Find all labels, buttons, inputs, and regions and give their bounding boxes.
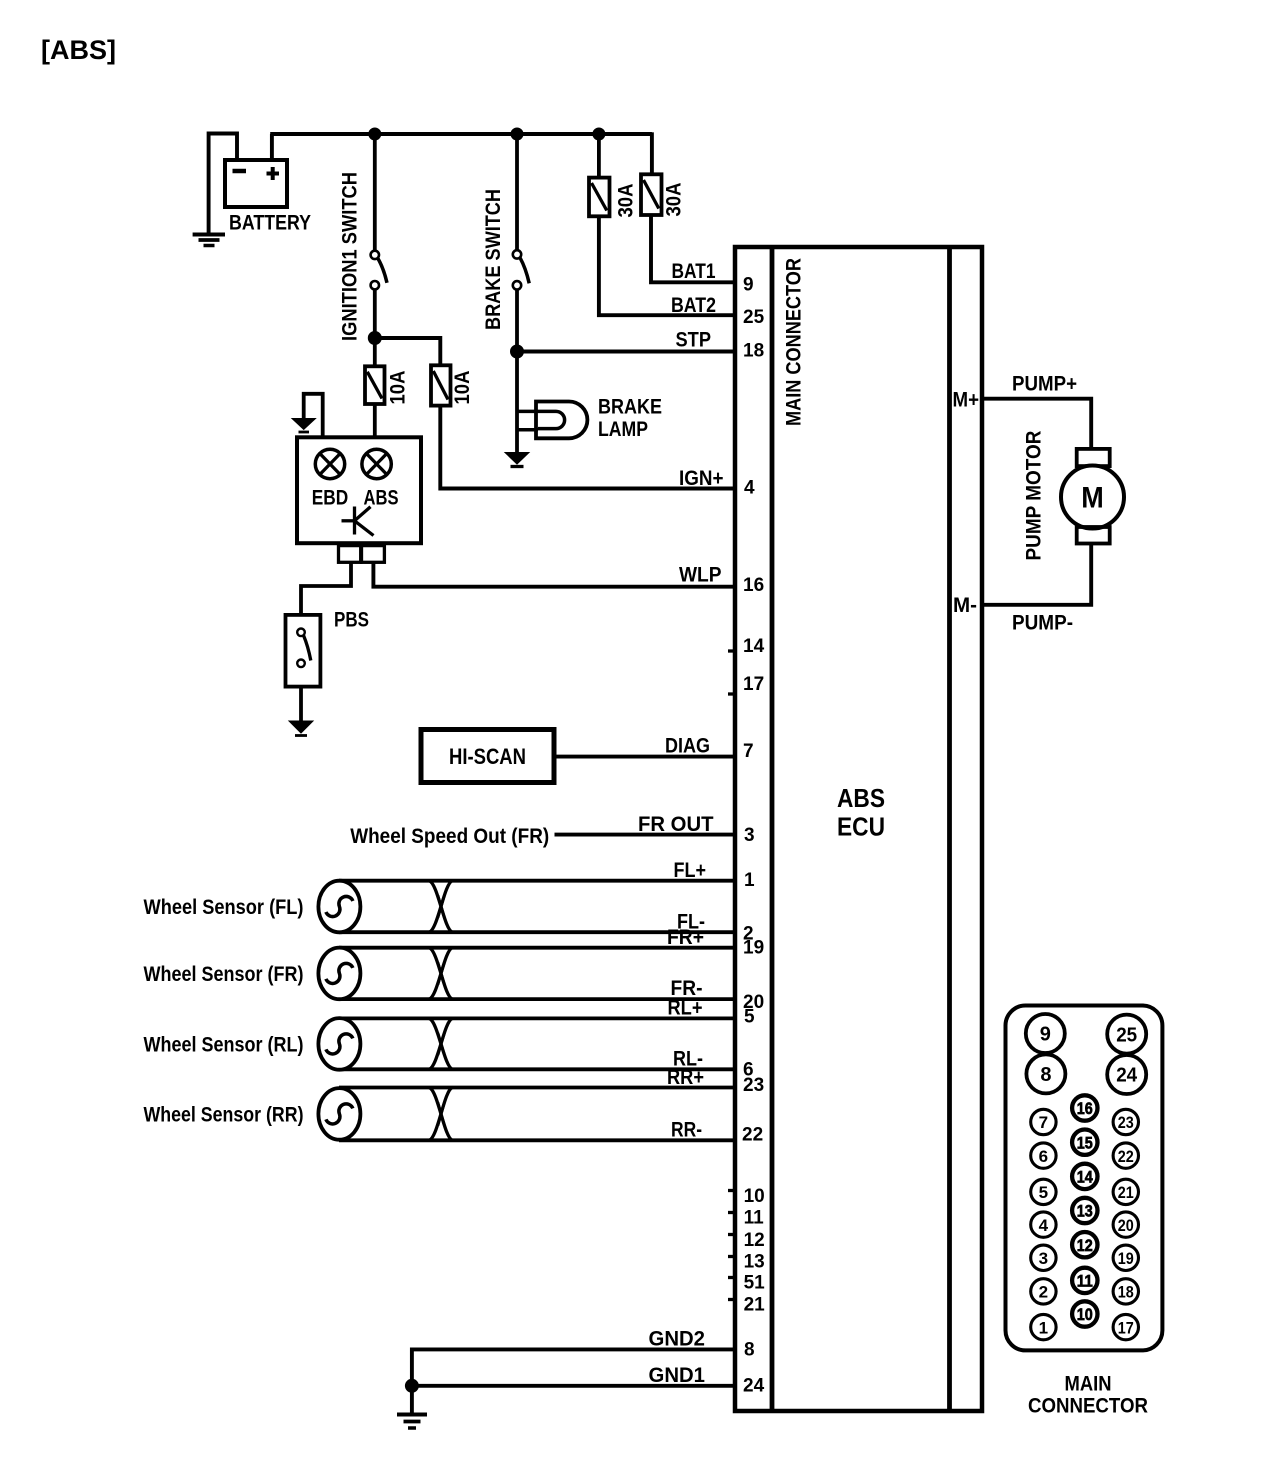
wire rail to fuse 30A-1 — [597, 134, 601, 178]
svg-text:RR-: RR- — [671, 1119, 702, 1142]
svg-text:20: 20 — [1118, 1216, 1134, 1235]
svg-text:14: 14 — [1077, 1168, 1093, 1187]
svg-text:FL+: FL+ — [674, 859, 707, 882]
svg-text:MAIN CONNECTOR: MAIN CONNECTOR — [783, 258, 806, 426]
ground G1 battery — [193, 235, 225, 246]
wheel sensor RL — [318, 1018, 360, 1070]
wire FR OUT to pin 3 — [555, 833, 736, 837]
svg-text:[ABS]: [ABS] — [41, 35, 116, 65]
wire ignition switch to junction — [373, 289, 377, 338]
svg-text:25: 25 — [743, 307, 765, 328]
connector cavity 17 — [1113, 1314, 1138, 1339]
wire STP to pin 18 — [517, 350, 735, 354]
svg-text:21: 21 — [744, 1295, 766, 1316]
svg-text:19: 19 — [743, 937, 764, 958]
svg-text:8: 8 — [744, 1340, 755, 1361]
svg-text:3: 3 — [1039, 1249, 1048, 1268]
svg-text:ABS: ABS — [837, 783, 885, 813]
svg-text:STP: STP — [676, 329, 712, 352]
lamp ABS — [362, 449, 391, 478]
connector cavity 9 — [1026, 1014, 1065, 1053]
svg-text:PUMP-: PUMP- — [1012, 612, 1073, 635]
pump motor M1 — [1061, 449, 1124, 544]
battery B1 — [225, 160, 287, 207]
wire PBS to ground — [299, 687, 303, 722]
wire brake switch branch down to lamp/ground — [515, 352, 519, 454]
wire fuse F3 to cluster box — [373, 404, 377, 437]
svg-text:Wheel Sensor (FL): Wheel Sensor (FL) — [144, 896, 304, 919]
svg-text:13: 13 — [1077, 1202, 1093, 1221]
svg-text:M-: M- — [953, 594, 977, 617]
svg-text:10: 10 — [1077, 1305, 1093, 1324]
svg-text:BRAKE SWITCH: BRAKE SWITCH — [482, 189, 505, 330]
connector cavity 8 — [1026, 1054, 1065, 1093]
svg-text:5: 5 — [744, 1006, 755, 1027]
connector cavity 16 — [1072, 1095, 1097, 1120]
junction node STP — [511, 345, 524, 358]
svg-text:LAMP: LAMP — [598, 418, 648, 441]
svg-text:Wheel Speed Out (FR): Wheel Speed Out (FR) — [350, 825, 549, 848]
svg-text:23: 23 — [1118, 1113, 1134, 1132]
svg-text:16: 16 — [743, 575, 764, 596]
fuse F3 10A — [365, 366, 385, 404]
wire fuse F1 to BAT2 pin 25 — [599, 216, 735, 315]
svg-text:30A: 30A — [615, 184, 638, 218]
svg-text:1: 1 — [1039, 1318, 1048, 1337]
brake lamp stubs — [517, 410, 538, 414]
svg-text:RL+: RL+ — [668, 997, 703, 1020]
connector cavity 11 — [1072, 1268, 1097, 1293]
connector cavity 19 — [1113, 1245, 1138, 1270]
svg-text:10: 10 — [744, 1186, 765, 1207]
wire DIAG to pin 7 — [554, 755, 735, 759]
switch PBS — [286, 615, 321, 687]
cluster pin box left — [339, 546, 361, 563]
svg-text:11: 11 — [744, 1208, 765, 1229]
svg-text:HI-SCAN: HI-SCAN — [449, 744, 526, 769]
svg-text:ECU: ECU — [837, 812, 885, 842]
svg-text:Wheel Sensor (FR): Wheel Sensor (FR) — [144, 963, 304, 986]
wire fuse F2 to BAT1 pin 9 — [651, 215, 735, 282]
fuse F1 30A — [589, 178, 610, 217]
svg-text:DIAG: DIAG — [665, 735, 710, 758]
connector cavity 24 — [1107, 1055, 1146, 1094]
svg-text:19: 19 — [1118, 1249, 1134, 1268]
wire rail to ignition switch — [373, 134, 377, 251]
fuse F2 30A — [641, 174, 662, 215]
svg-text:13: 13 — [744, 1252, 765, 1273]
junction rail/ignition — [369, 128, 381, 140]
svg-text:2: 2 — [1039, 1283, 1048, 1302]
ground G2 ECU — [397, 1415, 427, 1429]
connector cavity 23 — [1113, 1109, 1138, 1134]
svg-text:FR+: FR+ — [667, 926, 704, 949]
wire cluster to PBS — [301, 562, 351, 615]
wire junction to fuse 10A-1 — [373, 338, 377, 366]
junction rail/brake — [511, 128, 523, 140]
EBD symbol mark — [342, 507, 374, 536]
connector cavity 4 — [1031, 1212, 1056, 1237]
wire fuse F4 to IGN+ pin 4 — [440, 406, 735, 489]
connector cavity 22 — [1113, 1143, 1138, 1168]
connector cavity 6 — [1031, 1143, 1056, 1168]
wire M+ to pump motor — [982, 399, 1091, 449]
svg-text:21: 21 — [1118, 1183, 1134, 1202]
svg-text:51: 51 — [744, 1273, 766, 1294]
svg-text:EBD: EBD — [312, 487, 349, 510]
wire cluster WLP to pin 16 — [373, 562, 735, 586]
svg-text:CONNECTOR: CONNECTOR — [1028, 1395, 1148, 1418]
svg-text:9: 9 — [1040, 1024, 1051, 1046]
pin 11 stub — [728, 1211, 735, 1214]
pin 10 stub — [728, 1189, 735, 1192]
svg-text:BAT1: BAT1 — [672, 260, 716, 283]
connector cavity 1 — [1031, 1314, 1056, 1339]
svg-text:BAT2: BAT2 — [671, 294, 716, 317]
wheel sensor RR cable wires RR+/RR- — [339, 1088, 735, 1141]
connector cavity 21 — [1113, 1179, 1138, 1204]
svg-text:GND1: GND1 — [649, 1364, 706, 1387]
svg-text:12: 12 — [744, 1230, 765, 1251]
ignition switch S1 — [371, 251, 387, 290]
connector cavity 2 — [1031, 1279, 1056, 1304]
svg-text:11: 11 — [1077, 1272, 1093, 1291]
fuse F4 10A — [431, 365, 451, 405]
connector cavity 12 — [1072, 1232, 1097, 1257]
svg-text:BRAKE: BRAKE — [598, 396, 662, 419]
wire GND2 to pin 8 — [412, 1349, 735, 1413]
svg-text:18: 18 — [1118, 1283, 1134, 1302]
svg-text:IGNITION1 SWITCH: IGNITION1 SWITCH — [339, 172, 362, 341]
svg-text:BATTERY: BATTERY — [229, 212, 311, 235]
junction node GND — [405, 1379, 418, 1392]
connector cavity 3 — [1031, 1245, 1056, 1270]
warning lamp cluster box — [297, 437, 421, 543]
svg-text:6: 6 — [1039, 1147, 1048, 1166]
ABS ECU box — [735, 247, 982, 1411]
ECU connector divider right — [947, 247, 952, 1411]
svg-text:5: 5 — [1039, 1183, 1048, 1202]
pin 17 stub — [728, 692, 735, 695]
svg-text:22: 22 — [742, 1125, 763, 1146]
svg-text:18: 18 — [743, 340, 764, 361]
svg-text:PUMP+: PUMP+ — [1012, 373, 1077, 396]
svg-text:Wheel Sensor (RL): Wheel Sensor (RL) — [144, 1034, 304, 1057]
svg-text:Wheel Sensor (RR): Wheel Sensor (RR) — [144, 1104, 304, 1127]
svg-text:M: M — [1081, 482, 1104, 515]
svg-text:12: 12 — [1077, 1236, 1093, 1255]
svg-text:PBS: PBS — [334, 609, 369, 632]
svg-text:GND2: GND2 — [649, 1328, 706, 1351]
brake switch S2 — [513, 250, 529, 289]
svg-text:22: 22 — [1118, 1147, 1134, 1166]
wire battery positive riser — [270, 134, 274, 160]
svg-text:MAIN: MAIN — [1065, 1373, 1112, 1396]
wheel sensor FL cable wires FL+/FL- — [339, 881, 735, 933]
svg-text:8: 8 — [1040, 1064, 1051, 1086]
connector cavity 13 — [1072, 1198, 1097, 1223]
wire battery negative to ground — [209, 134, 237, 234]
svg-text:24: 24 — [743, 1375, 765, 1396]
svg-text:15: 15 — [1077, 1133, 1093, 1152]
pin 14 stub — [728, 649, 735, 652]
wire top power rail — [270, 132, 652, 136]
connector cavity 14 — [1072, 1164, 1097, 1189]
svg-text:10A: 10A — [387, 371, 410, 405]
ECU connector divider left — [770, 247, 775, 1411]
svg-text:14: 14 — [743, 636, 765, 657]
svg-text:FR OUT: FR OUT — [638, 813, 714, 836]
main connector housing — [1006, 1006, 1163, 1351]
svg-text:23: 23 — [743, 1075, 764, 1096]
connector cavity 25 — [1107, 1015, 1146, 1054]
svg-text:17: 17 — [743, 674, 764, 695]
svg-text:24: 24 — [1116, 1065, 1138, 1087]
pin 13 stub — [728, 1255, 735, 1258]
wire junction to fuse 10A-2 — [375, 338, 441, 365]
brake lamp bulb — [536, 402, 587, 439]
connector cavity 7 — [1031, 1109, 1056, 1134]
connector cavity 10 — [1072, 1301, 1097, 1326]
wire pump motor to M- — [982, 544, 1091, 605]
ground arrow PBS — [289, 721, 313, 736]
wire brake switch to STP junction — [515, 290, 519, 352]
wheel sensor RR — [318, 1088, 360, 1140]
svg-text:ABS: ABS — [364, 487, 399, 510]
svg-text:RR+: RR+ — [667, 1066, 704, 1089]
svg-text:17: 17 — [1118, 1318, 1134, 1337]
wheel sensor FL — [318, 881, 360, 933]
svg-text:4: 4 — [1039, 1216, 1049, 1235]
svg-text:IGN+: IGN+ — [679, 467, 724, 490]
svg-text:PUMP MOTOR: PUMP MOTOR — [1023, 431, 1046, 561]
wheel sensor FR cable wires FR+/FR- — [339, 948, 735, 999]
wheel sensor RL cable wires RL+/RL- — [339, 1018, 735, 1069]
svg-text:25: 25 — [1116, 1024, 1137, 1046]
pin 12 stub — [728, 1233, 735, 1236]
svg-text:9: 9 — [743, 275, 754, 296]
pin 51 stub — [728, 1276, 735, 1279]
svg-text:10A: 10A — [451, 371, 474, 405]
ground arrow cluster — [292, 394, 323, 438]
connector cavity 15 — [1072, 1130, 1097, 1155]
svg-text:3: 3 — [744, 825, 755, 846]
cluster pin box right — [362, 546, 385, 563]
svg-text:1: 1 — [744, 870, 755, 891]
lamp EBD — [315, 449, 344, 478]
connector cavity 18 — [1113, 1279, 1138, 1304]
connector cavity 5 — [1031, 1179, 1056, 1204]
svg-text:WLP: WLP — [679, 564, 722, 587]
wire rail jog to fuse 30A-2 — [650, 132, 654, 174]
svg-text:7: 7 — [1039, 1113, 1048, 1132]
pin 21 stub — [728, 1298, 735, 1301]
HI-SCAN tool box — [421, 730, 554, 783]
connector cavity 20 — [1113, 1212, 1138, 1237]
ground arrow brake lamp — [505, 453, 529, 467]
svg-text:7: 7 — [743, 741, 754, 762]
svg-text:M+: M+ — [953, 389, 980, 412]
wire GND1 to pin 24 — [412, 1384, 735, 1388]
svg-text:4: 4 — [744, 478, 755, 499]
junction node ignition/fuses — [368, 332, 381, 345]
svg-text:16: 16 — [1077, 1099, 1093, 1118]
svg-text:30A: 30A — [663, 183, 686, 217]
wire rail to brake switch — [515, 134, 519, 250]
junction rail/fuse30A-1 — [593, 128, 605, 140]
wheel sensor FR — [318, 948, 360, 1000]
